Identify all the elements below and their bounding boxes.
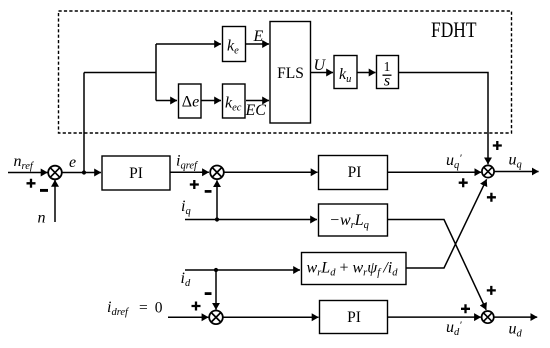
plus sign at junction 3 (192, 302, 201, 311)
wire PI to junction 2 (170, 171, 209, 173)
summing junction 3 (209, 311, 223, 325)
svg-text:FDHT: FDHT (431, 17, 477, 42)
svg-text:ku: ku (339, 66, 351, 85)
wire PI d to u_d junction (388, 316, 481, 318)
svg-text:PI: PI (347, 309, 361, 326)
node i_q junction dot (215, 217, 219, 221)
summing junction u_d (482, 311, 494, 323)
wire k_ec to FLS (246, 100, 269, 102)
svg-text:e: e (69, 154, 76, 171)
block k_u (334, 56, 357, 89)
summing junction 2 (210, 166, 224, 180)
svg-text:FLS: FLS (277, 65, 304, 82)
plus sign on diagonal near u_d junction (487, 286, 496, 295)
wire horizontal to branch point (84, 72, 156, 74)
block PI d-axis current controller (320, 301, 388, 334)
wire w_rL_d output to u_q junction (diagonal) (406, 179, 487, 268)
wire delta-e to k_ec (201, 100, 221, 102)
wire k_u to 1/s (357, 72, 376, 74)
minus sign at junction 3 (205, 292, 212, 295)
svg-text:iq: iq (181, 198, 191, 217)
wire junction1 to PI speed (62, 172, 102, 174)
plus sign on diagonal near u_q junction (487, 193, 496, 202)
block -w_r L_q (319, 204, 388, 236)
minus sign at junction 1 (40, 189, 48, 192)
svg-text:E: E (253, 28, 264, 45)
svg-text:idref: idref (107, 299, 130, 318)
plus sign at junction 2 (190, 180, 199, 189)
svg-text:Δe: Δe (182, 94, 199, 111)
svg-text:wrLd + wrψf /id: wrLd + wrψf /id (307, 260, 399, 279)
svg-text:PI: PI (129, 165, 143, 182)
svg-text:nref: nref (14, 153, 35, 172)
block k_ec (223, 84, 246, 118)
wire i_d down to junction 3 (215, 270, 217, 310)
wire i_d input (185, 269, 300, 271)
wire -w_rL_q output to u_d junction (diagonal) (388, 220, 487, 310)
wire branch to delta-e input (156, 100, 177, 102)
svg-text:s: s (384, 73, 390, 90)
svg-text:uq′: uq′ (446, 152, 462, 171)
block delta-e (179, 84, 202, 118)
svg-text:−wrLq: −wrLq (329, 212, 369, 231)
wire 1/s output to u_q summing junction (399, 73, 489, 165)
wire e feed vertical from node e up into FDHT (83, 73, 85, 173)
svg-text:PI: PI (348, 164, 362, 181)
wire i_dref input (168, 316, 208, 318)
block FLS (270, 22, 311, 124)
svg-text:ud: ud (509, 321, 523, 340)
wire k_e to FLS (246, 43, 269, 45)
wire junction3 to PI d-axis (223, 316, 319, 318)
svg-text:ud′: ud′ (446, 319, 462, 338)
summing junction 1 (48, 166, 62, 180)
plus sign at junction 1 (27, 179, 36, 188)
node e junction dot (82, 170, 86, 174)
wire branch to k_e input (156, 43, 221, 45)
block w_rL_d + w_r psi_f / i_d (302, 253, 407, 285)
minus sign at junction 2 (205, 190, 212, 193)
FDHT dashed enclosure (59, 11, 512, 133)
wire u_q output (494, 171, 538, 173)
svg-text:U: U (314, 57, 327, 74)
block PI speed controller (102, 156, 170, 190)
plus sign left of u_d junction (461, 304, 470, 313)
svg-text:iqref: iqref (176, 153, 199, 172)
wire n feedback input (54, 180, 56, 222)
wire i_q input (185, 219, 317, 221)
summing junction u_q (482, 165, 494, 177)
node i_d junction dot (214, 268, 218, 272)
svg-text:ke: ke (227, 38, 239, 57)
wire branch vertical (155, 44, 157, 101)
wire FLS to k_u (311, 72, 334, 74)
wire n_ref input (8, 172, 48, 174)
svg-text:= 0: = 0 (139, 300, 163, 317)
block PI q-axis current controller (319, 156, 388, 190)
svg-text:id: id (181, 270, 191, 289)
svg-text:uq: uq (509, 152, 522, 171)
wire junction2 to PI q-axis (224, 171, 318, 173)
svg-text:kec: kec (225, 95, 242, 114)
block 1/s integrator (377, 56, 399, 90)
plus sign above u_q junction (493, 141, 502, 150)
svg-text:EC: EC (245, 102, 267, 119)
plus sign left of u_q junction (459, 178, 468, 187)
wire PI q to u_q junction (388, 171, 482, 173)
wire u_d output (494, 316, 537, 318)
block k_e (223, 27, 246, 62)
svg-text:n: n (38, 210, 46, 227)
wire i_q up to junction 2 (216, 180, 218, 219)
